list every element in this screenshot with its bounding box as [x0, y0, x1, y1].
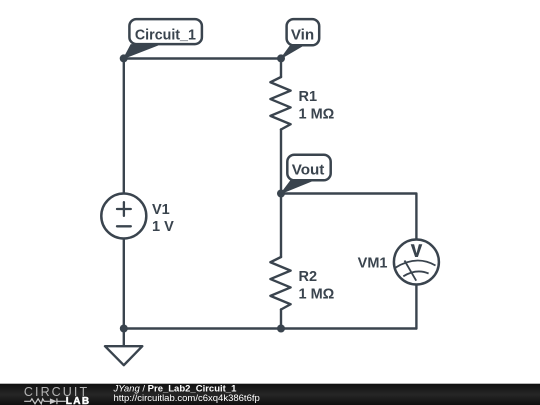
Circuit_1 callout box [129, 19, 202, 44]
svg-text:Vout: Vout [292, 162, 325, 179]
V1 minus sign [117, 225, 131, 227]
wire left branch: V1 minus terminal down to ground rail [123, 239, 125, 329]
svg-text:R1: R1 [299, 89, 318, 105]
ground stub wire [123, 329, 125, 347]
CircuitLab logo [24, 385, 91, 405]
Vin callout box [287, 19, 320, 45]
node label Vin [281, 19, 319, 58]
svg-text:LAB: LAB [66, 396, 91, 405]
ground triangle [105, 346, 142, 365]
junction node at Circuit_1 (124,58) [120, 54, 128, 62]
wire bottom rail from ground node to voltmeter bottom corner [124, 327, 417, 329]
Vout callout tail [281, 180, 314, 193]
svg-text:Circuit_1: Circuit_1 [135, 26, 197, 43]
voltage source V1 [101, 194, 174, 239]
junction node at ground (124,328.5) [120, 325, 128, 333]
wire: node Vin down to R1 top [280, 59, 282, 78]
junction node at Vin (281,58) [277, 54, 285, 62]
wire: voltmeter bottom to bottom rail [415, 285, 417, 329]
VM1 needle [405, 261, 417, 281]
svg-text:http://circuitlab.com/c6xq4k38: http://circuitlab.com/c6xq4k386t6fp [114, 393, 260, 404]
resistor R1 [270, 77, 334, 130]
wire: R2 bottom down to bottom rail [280, 310, 282, 329]
Vin callout tail [281, 45, 304, 58]
svg-text:R2: R2 [299, 269, 318, 285]
VM1 meter scale arcs [395, 261, 435, 268]
svg-text:Vin: Vin [291, 26, 314, 43]
wire: R1 bottom to node Vout [280, 130, 282, 194]
junction node R2 bottom (281,328.5) [277, 325, 285, 333]
wire: node Vout right to voltmeter top corner and down [281, 194, 416, 240]
V1 plus sign [117, 208, 131, 210]
voltmeter VM1 [358, 240, 439, 285]
svg-text:VM1: VM1 [358, 256, 388, 272]
Circuit_1 callout tail [124, 45, 158, 59]
svg-text:V1: V1 [152, 202, 170, 218]
VM1 letter V [411, 244, 423, 257]
svg-text:1 MΩ: 1 MΩ [299, 287, 335, 303]
V1 circle body [101, 194, 146, 239]
ground [105, 329, 142, 366]
wire: node Vout down to R2 top [280, 194, 282, 258]
resistor R1 zigzag body [270, 77, 290, 130]
node label Vout [281, 155, 331, 194]
resistor R2 zigzag body [270, 257, 290, 310]
junction node at Vout (281,193.5) [277, 190, 285, 198]
VM1 circle body [394, 240, 439, 285]
svg-text:1 MΩ: 1 MΩ [299, 106, 335, 122]
node label Circuit_1 [124, 19, 202, 58]
resistor R2 [270, 257, 334, 310]
svg-text:1 V: 1 V [152, 219, 174, 235]
wire left branch: node Circuit_1 down to V1 plus terminal [123, 59, 125, 195]
Vout callout box [287, 155, 330, 181]
wire top rail from node Circuit_1 to node Vin [124, 57, 281, 59]
